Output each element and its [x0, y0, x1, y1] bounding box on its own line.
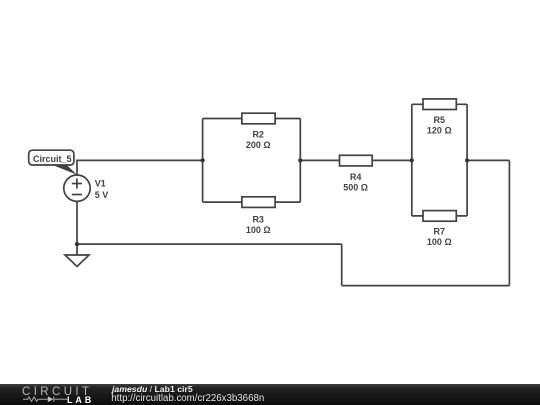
svg-text:R7: R7: [434, 227, 446, 237]
label R3 value: [246, 214, 271, 235]
svg-text:100 Ω: 100 Ω: [246, 225, 271, 235]
svg-text:V1: V1: [95, 178, 106, 188]
wire block 2 right vertical: [466, 104, 468, 216]
resistor R7: [423, 211, 456, 222]
wire block 2 bottom rail: [412, 215, 467, 217]
wire block 2 top rail: [412, 103, 467, 105]
label R4 value: [343, 172, 368, 193]
svg-text:5 V: 5 V: [95, 190, 109, 200]
svg-text:LAB: LAB: [67, 395, 94, 405]
footer bar: [0, 384, 540, 405]
svg-text:120 Ω: 120 Ω: [427, 126, 452, 136]
wire node B to R4 to node C: [300, 159, 411, 161]
svg-text:100 Ω: 100 Ω: [427, 237, 452, 247]
svg-text:R3: R3: [252, 214, 264, 224]
wire block 1 bottom rail: [203, 201, 301, 203]
wire node D to right edge: [467, 159, 509, 161]
voltage source V1: [64, 175, 90, 201]
wire ground rail horizontal: [77, 243, 342, 245]
net label callout Circuit_5: [29, 150, 77, 175]
node A junction dot: [201, 158, 205, 162]
resistor R2: [242, 113, 275, 124]
node B junction dot: [298, 158, 302, 162]
wire bottom return horizontal: [342, 285, 510, 287]
ground: [65, 255, 89, 267]
svg-text:R4: R4: [350, 172, 362, 182]
wire ground stem: [76, 244, 78, 255]
label V1 value: [95, 178, 109, 200]
wire block 1 right vertical: [299, 119, 301, 203]
resistor R3: [242, 197, 275, 208]
wire right edge vertical down: [508, 160, 510, 285]
footer logo CIRCUIT LAB: [0, 384, 108, 405]
svg-text:200 Ω: 200 Ω: [246, 140, 271, 150]
svg-text:Circuit_5: Circuit_5: [33, 154, 72, 164]
footer url line: [111, 393, 264, 404]
label R5 value: [427, 115, 452, 136]
wire parallel block 2 left vertical: [411, 104, 413, 216]
node D junction dot: [465, 158, 469, 162]
label R2 value: [246, 130, 271, 151]
wire V1 top to first node: [77, 160, 203, 175]
wire parallel block 1 left vertical: [202, 119, 204, 203]
wire block 1 top rail: [203, 118, 301, 120]
node C junction dot: [410, 158, 414, 162]
wire step vertical: [341, 244, 343, 286]
label R7 value: [427, 227, 452, 248]
resistor R4: [340, 155, 373, 166]
footer title line: [112, 384, 193, 394]
svg-text:R5: R5: [434, 115, 446, 125]
resistor R5: [423, 99, 456, 110]
svg-text:R2: R2: [252, 130, 264, 140]
node E ground junction dot: [75, 242, 79, 246]
svg-text:500 Ω: 500 Ω: [343, 182, 368, 192]
wire V1 bottom to ground node: [76, 201, 78, 244]
